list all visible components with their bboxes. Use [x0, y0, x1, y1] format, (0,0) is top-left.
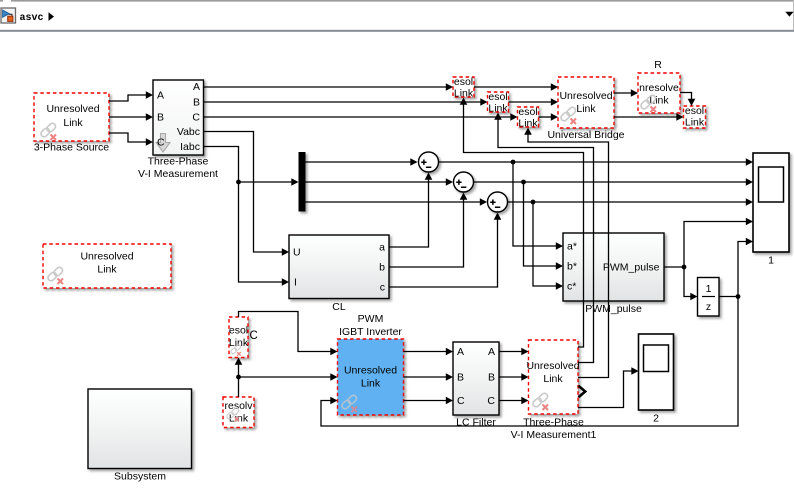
wire UB out2 to R-out block: [614, 116, 677, 118]
svg-text:PWM: PWM: [358, 313, 384, 325]
unresolved link small block DC-src: [223, 397, 254, 428]
svg-text:CL: CL: [332, 301, 346, 313]
svg-text:I: I: [294, 277, 297, 289]
wire CL c to S3: [389, 219, 498, 287]
sum S2: [454, 172, 474, 192]
wire LC A to VIM1 A: [499, 351, 522, 353]
svg-text:Link: Link: [97, 264, 117, 276]
wire mux out2 to S2: [306, 181, 447, 183]
unresolved link small block VM-b: [488, 92, 509, 112]
junction S1/a*: [511, 160, 516, 165]
wire VM-c to UB in3: [539, 116, 552, 118]
wire 1/z out: [719, 296, 738, 298]
wire PWM_pulse out: [664, 266, 684, 268]
unresolved link small block R-out: [684, 106, 706, 128]
svg-text:Three-Phase: Three-Phase: [523, 417, 584, 429]
svg-text:C: C: [457, 395, 465, 407]
dropdown triangle: [785, 12, 793, 17]
svg-text:Unresolved: Unresolved: [526, 360, 579, 372]
wire up to scope1 in5: [738, 242, 747, 297]
svg-text:esol: esol: [685, 105, 704, 117]
wire DC-src to C-meas: [238, 364, 240, 397]
unconnected output port: [579, 386, 586, 397]
svg-text:1: 1: [706, 283, 712, 295]
wire inverter out1 to LC A: [404, 351, 447, 353]
wire CL a to S1: [389, 179, 429, 247]
wire VIM1 out4 to scope2: [578, 371, 632, 408]
wire S2 out to scope1 in2: [474, 181, 747, 183]
wire S3 out to scope1 in3: [508, 201, 747, 203]
wire VIM1 out3 up to VM-c: [528, 134, 609, 378]
wire Iabc to CL I: [204, 147, 283, 283]
svg-text:B: B: [157, 112, 164, 124]
Three-Phase V-I Measurement block: [153, 80, 204, 155]
svg-text:2: 2: [653, 413, 659, 425]
svg-text:Link: Link: [63, 117, 83, 129]
svg-text:Link: Link: [518, 118, 538, 130]
Three-Phase V-I Measurement1 block: [529, 340, 579, 414]
svg-text:C: C: [487, 395, 495, 407]
svg-text:esol: esol: [454, 76, 473, 88]
Universal Bridge block: [558, 77, 614, 128]
svg-text:3-Phase Source: 3-Phase Source: [34, 142, 109, 154]
svg-text:C: C: [250, 330, 258, 342]
wire VM-b to UB in2: [509, 101, 552, 103]
wire VIM C rail to VM-c: [204, 116, 512, 118]
sum S3: [488, 192, 508, 212]
svg-text:c*: c*: [567, 281, 576, 293]
svg-text:c: c: [380, 282, 385, 294]
LC Filter block: [453, 342, 499, 415]
svg-text:A: A: [457, 346, 464, 358]
wire src out3 to VIM C: [109, 133, 147, 142]
wire VIM A rail to VM-a: [204, 86, 447, 88]
scope 1: [753, 153, 789, 252]
wire mux out1 to S1: [306, 161, 412, 163]
svg-text:B: B: [193, 97, 200, 109]
svg-text:Link: Link: [488, 103, 508, 115]
svg-text:Link: Link: [361, 378, 381, 390]
svg-text:IGBT Inverter: IGBT Inverter: [339, 326, 402, 338]
CL block: [289, 235, 389, 299]
svg-text:esol: esol: [488, 91, 507, 103]
unresolved link small block VM-a: [453, 77, 474, 97]
junction Iabc/mux: [236, 180, 241, 185]
mux bar: [299, 152, 306, 212]
standalone Unresolved Link block: [43, 244, 171, 288]
Subsystem block: [88, 389, 192, 469]
svg-text:Link: Link: [543, 373, 563, 385]
svg-text:z: z: [706, 301, 711, 313]
wire S1 out to scope1 in1: [439, 161, 747, 163]
svg-text:Link: Link: [229, 337, 249, 349]
wire UB out1 to R: [614, 92, 632, 94]
wire branch to inverter in2: [239, 376, 332, 378]
svg-text:Link: Link: [576, 103, 596, 115]
wire LC B to VIM1 B: [499, 376, 522, 378]
junction S2/b*: [521, 180, 526, 185]
svg-text:A: A: [193, 81, 200, 93]
wire src out1 to VIM A: [109, 95, 147, 101]
svg-text:a: a: [379, 242, 385, 254]
svg-text:Vabc: Vabc: [177, 126, 200, 138]
svg-text:C: C: [157, 137, 165, 149]
PWM_pulse block: [563, 233, 664, 301]
breadcrumb arrow: [49, 12, 55, 21]
R block: [638, 73, 680, 113]
svg-text:Unresolved: Unresolved: [559, 90, 612, 102]
wire branch to mux: [239, 181, 293, 183]
wire R out down to R-out block: [680, 93, 692, 100]
svg-text:nresolve: nresolve: [639, 82, 679, 94]
svg-text:B: B: [488, 372, 495, 384]
svg-text:Three-Phase: Three-Phase: [148, 156, 209, 168]
wire feedback to inverter in3: [321, 297, 738, 427]
svg-text:V-I Measurement: V-I Measurement: [138, 168, 218, 180]
wire up to scope1 in4: [684, 222, 747, 268]
breadcrumb bar: [0, 0, 794, 2]
svg-text:1: 1: [768, 255, 774, 267]
svg-text:LC Filter: LC Filter: [456, 417, 496, 429]
junction DC-src branch: [236, 375, 241, 380]
sum S1: [419, 152, 439, 172]
svg-text:Unresolved: Unresolved: [80, 251, 133, 263]
PWM IGBT Inverter blue block: [338, 339, 404, 415]
wire branch to a*: [513, 162, 557, 246]
svg-text:Link: Link: [649, 95, 669, 107]
wire down to 1/z: [684, 267, 691, 297]
svg-text:b: b: [379, 262, 385, 274]
junction PWM_pulse out: [682, 265, 687, 270]
wire VIM B rail to VM-b: [204, 101, 482, 103]
svg-text:esol: esol: [229, 325, 248, 337]
svg-text:U: U: [293, 247, 301, 259]
svg-text:C: C: [192, 112, 200, 124]
svg-text:B: B: [457, 372, 464, 384]
svg-text:b*: b*: [567, 261, 577, 273]
wire Vabc to CL U: [204, 132, 283, 253]
unit delay 1/z block: [698, 278, 720, 317]
wire LC C to VIM1 C: [499, 400, 522, 402]
svg-text:asvc: asvc: [20, 13, 44, 24]
svg-text:Unresolved: Unresolved: [46, 103, 99, 115]
svg-text:Unresolved: Unresolved: [344, 365, 397, 377]
wire src out2 to VIM B: [109, 116, 147, 118]
svg-text:Universal Bridge: Universal Bridge: [547, 129, 624, 141]
wire inverter out3 to LC C: [404, 400, 447, 402]
svg-text:V-I Measurement1: V-I Measurement1: [511, 429, 597, 441]
wire branch to c*: [533, 202, 557, 286]
grey down-arrow icon: [156, 134, 170, 153]
wire CL b to S2: [389, 199, 464, 267]
wire VM-a to UB in1: [474, 86, 552, 88]
svg-text:Subsystem: Subsystem: [114, 471, 166, 483]
wire mux out3 to S3: [306, 201, 481, 203]
unresolved link small block VM-c: [518, 107, 539, 127]
svg-text:A: A: [488, 346, 495, 358]
svg-text:Iabc: Iabc: [180, 141, 200, 153]
wire inverter out2 to LC B: [404, 376, 447, 378]
unresolved link small block C-meas: [229, 317, 248, 358]
model icon: [1, 8, 16, 23]
3-Phase Source block: [34, 93, 109, 141]
scope 2: [639, 334, 674, 410]
svg-text:esol: esol: [518, 106, 537, 118]
wire C-meas top to inverter in1: [239, 312, 332, 352]
wire VIM1 out1 up to VM-a: [464, 104, 584, 347]
svg-text:Link: Link: [685, 117, 705, 129]
svg-text:PWM_pulse: PWM_pulse: [603, 262, 660, 274]
junction S3/c*: [531, 200, 536, 205]
svg-text:A: A: [157, 90, 164, 102]
junction 1/z out: [736, 294, 741, 299]
svg-text:R: R: [654, 59, 662, 71]
svg-text:a*: a*: [567, 241, 577, 253]
wire branch to b*: [524, 182, 557, 266]
svg-text:Link: Link: [454, 88, 474, 100]
wire VIM1 out2 up to VM-b: [498, 119, 594, 363]
